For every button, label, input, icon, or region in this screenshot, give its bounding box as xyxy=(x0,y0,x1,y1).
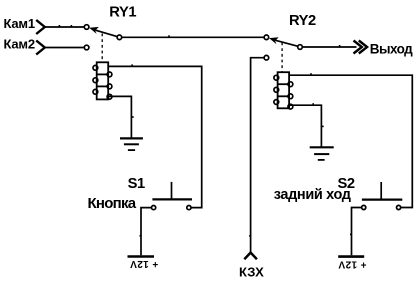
relay RY2 actuation dashed link xyxy=(281,43,283,72)
label +12V left (rotated 180) xyxy=(130,258,158,269)
relay RY1 actuation dashed link xyxy=(101,34,103,62)
ground symbol right xyxy=(310,147,334,160)
wire RY2 coil top to S2 right contact xyxy=(289,73,412,207)
svg-text:задний ход: задний ход xyxy=(274,187,351,203)
svg-text:RY2: RY2 xyxy=(289,13,316,29)
svg-text:Кнопка: Кнопка xyxy=(88,195,137,212)
relay RY2 contact pin from RY1 xyxy=(264,35,269,40)
label Выход xyxy=(370,42,413,57)
label RY2 xyxy=(289,13,316,29)
power +12V terminal left xyxy=(128,255,155,258)
switch S1 pushbutton xyxy=(152,182,193,210)
wire RY1 common to RY2 input xyxy=(122,35,264,37)
label Кам2 xyxy=(4,37,35,52)
wire RY1 coil bottom to ground xyxy=(108,96,133,138)
wire RY2 input to КЗХ connector xyxy=(249,58,264,253)
switch S2 pushbutton xyxy=(362,182,403,210)
label +12V right (rotated 180) xyxy=(338,258,366,269)
relay RY1 contact pin Кам1 xyxy=(84,25,89,30)
power +12V terminal right xyxy=(338,255,364,258)
label Кам1 xyxy=(4,16,35,31)
wire S1 left contact to +12V left xyxy=(140,208,152,256)
svg-text:+ 12V: + 12V xyxy=(130,258,158,269)
label КЗХ xyxy=(239,264,264,279)
connector Выход double chevron xyxy=(354,41,368,54)
wire S2 left contact to +12V right xyxy=(350,208,362,256)
relay coil RY1 xyxy=(93,62,112,99)
label S1 xyxy=(128,176,145,192)
svg-text:КЗХ: КЗХ xyxy=(239,264,264,279)
svg-text:Выход: Выход xyxy=(370,42,413,57)
connector Кам2 xyxy=(36,41,45,55)
relay RY2 switch arm with arrow xyxy=(269,37,298,46)
label S2 xyxy=(338,176,355,192)
svg-text:S1: S1 xyxy=(128,176,145,192)
wire Кам2 to RY1 contact xyxy=(45,47,84,49)
relay RY1 switch arm with arrow xyxy=(89,27,117,37)
wire Кам1 to RY1 contact xyxy=(45,25,84,27)
relay RY1 contact pin Кам2 xyxy=(84,45,89,50)
svg-text:Кам2: Кам2 xyxy=(4,37,35,52)
relay coil RY2 xyxy=(274,72,293,109)
connector Кам1 xyxy=(36,20,45,34)
wire RY2 common to output xyxy=(302,45,356,47)
svg-text:+ 12V: + 12V xyxy=(338,258,366,269)
label Кнопка xyxy=(88,195,137,212)
ground symbol left xyxy=(120,138,143,150)
wire RY2 coil bottom to ground xyxy=(289,103,323,147)
relay RY2 contact pin from КЗХ xyxy=(264,55,269,60)
connector КЗХ xyxy=(244,253,257,260)
relay RY1 common pin xyxy=(117,35,122,40)
label задний ход xyxy=(274,187,351,203)
label RY1 xyxy=(109,4,136,20)
svg-text:Кам1: Кам1 xyxy=(4,16,35,31)
svg-text:RY1: RY1 xyxy=(109,4,136,20)
relay RY2 common pin xyxy=(298,45,303,50)
wire RY1 coil top to S1 right contact xyxy=(108,64,201,207)
